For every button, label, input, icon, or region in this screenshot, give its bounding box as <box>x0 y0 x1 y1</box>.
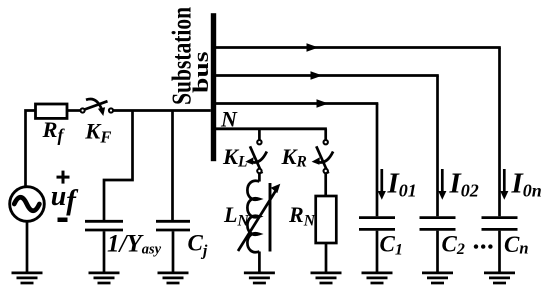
feeder line 1 (to C_n) <box>216 46 501 49</box>
svg-text:KL: KL <box>222 144 247 171</box>
current arrow I_01 <box>378 169 386 200</box>
feeder line 2 (to C_2) <box>216 74 439 77</box>
inductor L_N (adjustable) <box>238 181 280 252</box>
wire tap to C_j <box>171 111 174 221</box>
wire source to ground <box>26 221 29 272</box>
svg-text:KR: KR <box>281 144 307 171</box>
wire feeder 3 down to C_1 <box>376 104 379 217</box>
svg-text:1/Yasy: 1/Yasy <box>107 231 162 258</box>
feeder line 3 (to C_1) <box>216 102 378 105</box>
ground (C_1) <box>362 273 393 283</box>
wire stub N to K_R <box>324 129 327 140</box>
capacitor C_n <box>482 218 518 230</box>
ground (C_n) <box>484 273 515 283</box>
arrow on feeder line 2 <box>311 71 323 79</box>
svg-text:uf: uf <box>51 181 80 216</box>
wire K_F to bus <box>113 109 211 112</box>
arrow on feeder line 3 <box>317 99 329 107</box>
wire node N feeder <box>213 127 327 130</box>
switch K_R <box>312 140 334 174</box>
wire K_R to R_N <box>324 174 327 197</box>
capacitor C_2 <box>420 218 456 230</box>
arrow on feeder line 1 <box>307 43 319 51</box>
svg-text:bus: bus <box>188 51 213 93</box>
wire feeder 1 down to C_n <box>498 48 501 217</box>
wire R_N to ground <box>325 243 328 272</box>
ground (C_j) <box>158 273 189 283</box>
svg-text:Rf: Rf <box>42 117 66 145</box>
switch K_F <box>81 99 114 116</box>
current arrow I_02 <box>438 169 446 200</box>
svg-text:RN: RN <box>288 202 316 230</box>
wire C_1 to ground <box>376 231 379 272</box>
capacitor C_1 <box>359 218 395 230</box>
svg-text:I01: I01 <box>387 168 417 201</box>
wire K_L to L_N <box>258 174 261 182</box>
ground (R_N) <box>311 273 342 283</box>
svg-text:Cn: Cn <box>504 232 529 258</box>
svg-text:KF: KF <box>84 118 111 146</box>
svg-text:C1: C1 <box>380 231 403 258</box>
ground (C_2) <box>422 273 453 283</box>
svg-text:I02: I02 <box>449 168 479 201</box>
wire source to R_f <box>26 111 36 188</box>
wire feeder 2 down to C_2 <box>436 76 439 217</box>
svg-text:I0n: I0n <box>511 168 542 201</box>
ground (1/Y_asy) <box>89 273 120 283</box>
svg-text:Cj: Cj <box>188 230 208 259</box>
label Substation bus <box>166 7 213 105</box>
label - (source polarity) <box>58 218 68 223</box>
current arrow I_0n <box>500 169 508 200</box>
svg-text:LN: LN <box>223 202 249 230</box>
switch K_L <box>245 140 266 174</box>
label + (source polarity) <box>57 171 70 184</box>
ground (source) <box>12 273 43 283</box>
wire tap to 1/Y_asy <box>104 111 133 221</box>
wire stub N to K_L <box>258 129 261 140</box>
wire C_2 to ground <box>436 231 439 272</box>
wire 1/Y_asy to ground <box>103 231 106 272</box>
substation bus bar <box>211 13 216 161</box>
capacitor 1/Y_asy <box>85 221 123 230</box>
resistor R_N <box>316 196 337 243</box>
ellipsis dots <box>474 244 493 248</box>
wire R_f to K_F <box>67 109 80 112</box>
wire C_n to ground <box>498 231 501 272</box>
ground (L_N) <box>244 273 275 283</box>
svg-text:C2: C2 <box>442 231 465 258</box>
wire L_N to ground <box>258 252 261 273</box>
resistor R_f <box>36 104 68 118</box>
capacitor C_j <box>156 221 190 230</box>
AC source u_f <box>10 187 45 222</box>
wire C_j to ground <box>172 231 175 272</box>
